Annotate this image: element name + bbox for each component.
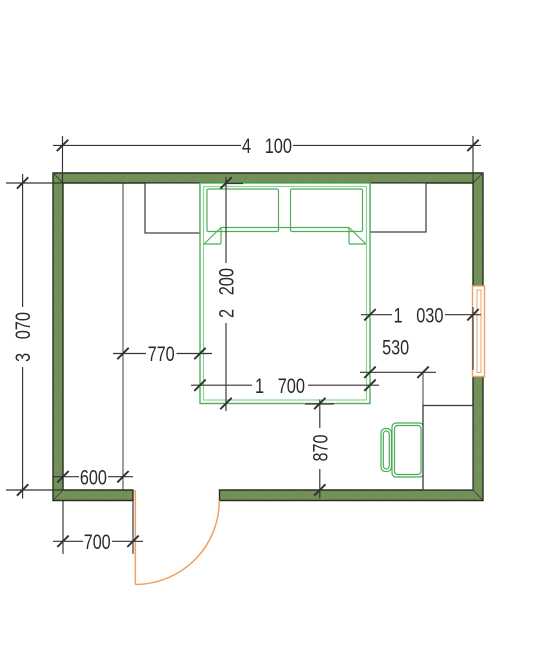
svg-text:600: 600	[80, 466, 107, 489]
svg-text:770: 770	[148, 343, 175, 366]
svg-text:3 070: 3 070	[12, 312, 35, 362]
svg-text:530: 530	[382, 336, 409, 359]
svg-text:4 100: 4 100	[242, 135, 292, 158]
svg-text:700: 700	[84, 531, 111, 554]
svg-text:1 030: 1 030	[394, 304, 444, 327]
svg-text:870: 870	[309, 435, 332, 462]
svg-text:2 200: 2 200	[216, 268, 239, 318]
svg-text:1 700: 1 700	[255, 375, 305, 398]
